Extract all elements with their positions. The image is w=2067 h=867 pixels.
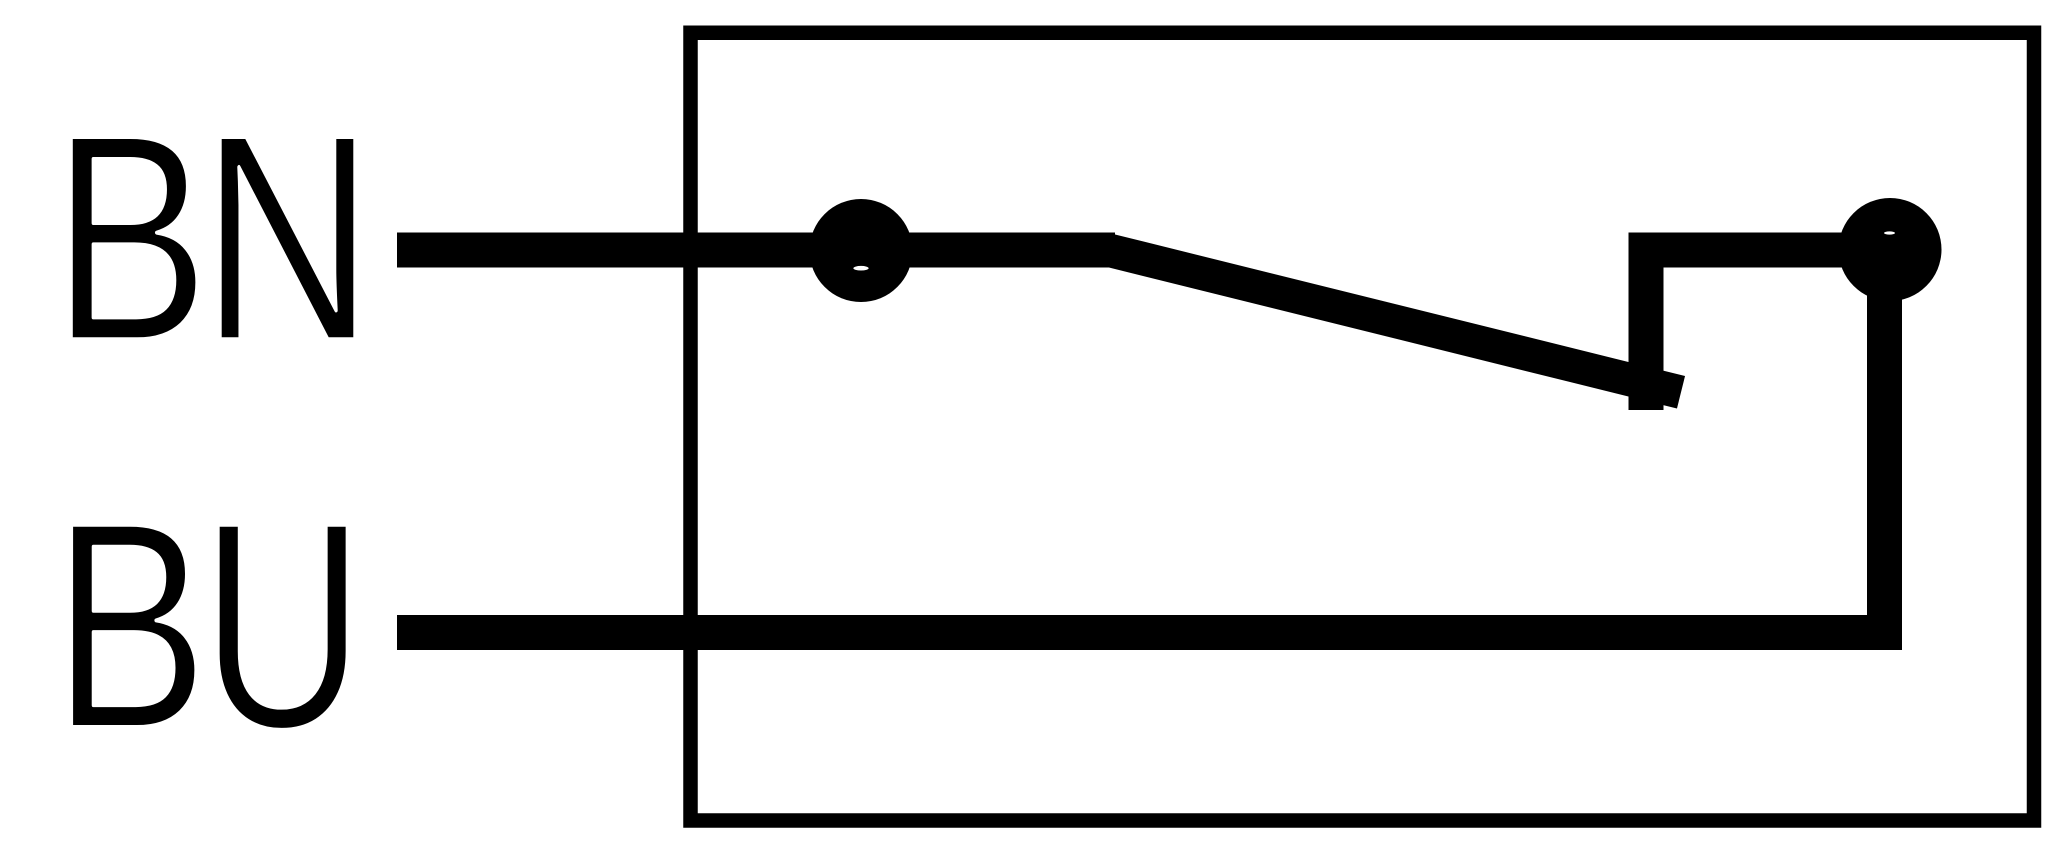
svg-text:N: N	[200, 74, 374, 403]
node B inner-hole artifact (white sliver)	[1884, 231, 1895, 234]
svg-text:U: U	[201, 461, 365, 790]
node A inner-hole artifact (white sliver)	[853, 266, 868, 271]
svg-text:B: B	[52, 74, 210, 402]
fixed contact post and wire to node B	[1646, 250, 1890, 410]
switch moving contact arm	[1110, 251, 1681, 393]
wire: BN lead from label into box to pivot	[397, 233, 1115, 268]
node A (junction dot, pivot side)	[810, 199, 913, 302]
wire: from node B down and left to BU label	[397, 250, 1885, 633]
switch enclosure box S1	[691, 33, 2035, 821]
node B (junction dot, contact side)	[1839, 198, 1942, 301]
svg-text:B: B	[52, 463, 208, 791]
